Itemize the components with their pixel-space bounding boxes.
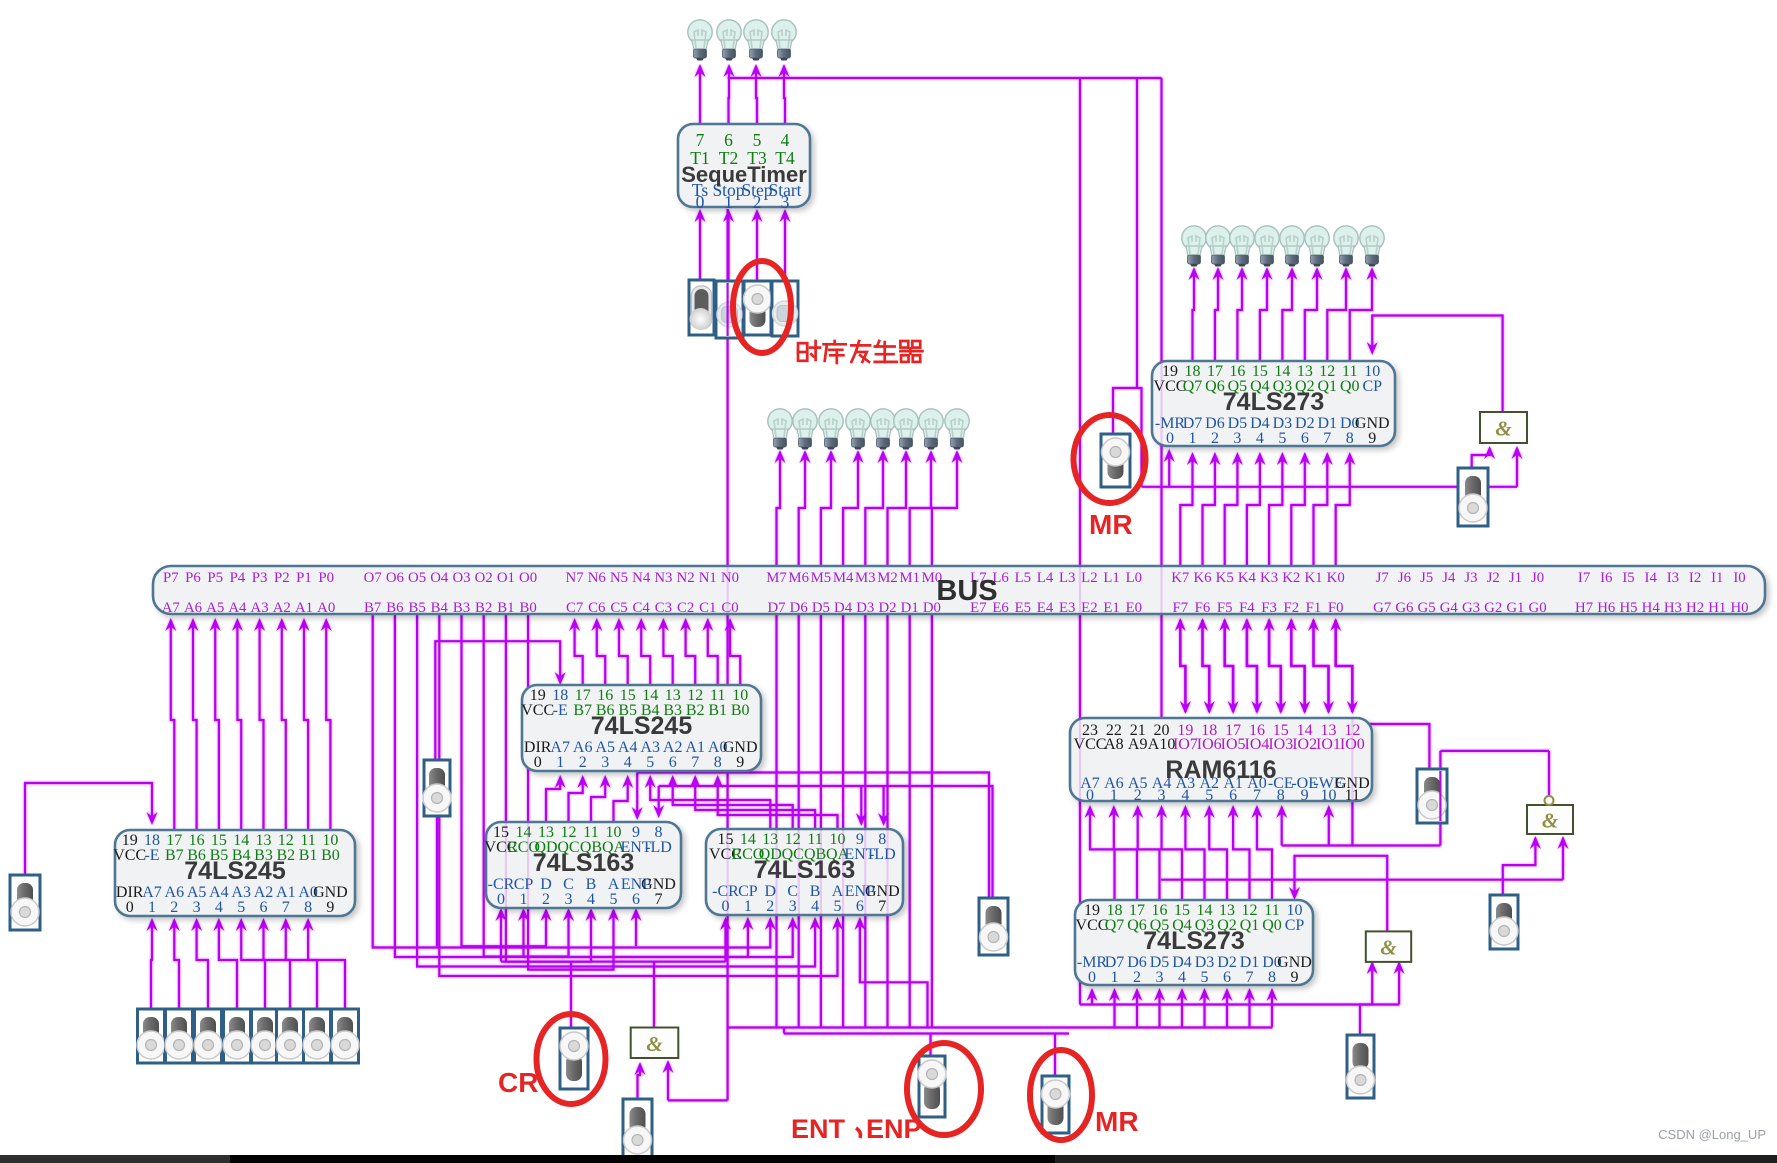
svg-text:SequeTimer: SequeTimer xyxy=(681,162,807,187)
svg-text:7: 7 xyxy=(1253,787,1261,804)
svg-text:0: 0 xyxy=(1166,430,1174,447)
svg-text:O6: O6 xyxy=(386,570,404,586)
svg-text:L2: L2 xyxy=(1081,570,1097,586)
svg-text:A4: A4 xyxy=(228,600,247,616)
svg-text:B7: B7 xyxy=(573,702,592,719)
svg-text:B1: B1 xyxy=(299,847,318,864)
svg-text:7: 7 xyxy=(691,754,699,771)
svg-text:4: 4 xyxy=(1181,787,1189,804)
svg-text:B0: B0 xyxy=(519,600,536,616)
svg-text:4: 4 xyxy=(1256,430,1264,447)
svg-text:3: 3 xyxy=(601,754,609,771)
svg-text:-LD: -LD xyxy=(869,846,896,863)
svg-text:I1: I1 xyxy=(1711,570,1723,586)
svg-text:L4: L4 xyxy=(1037,570,1054,586)
svg-text:D2: D2 xyxy=(878,600,896,616)
svg-text:I4: I4 xyxy=(1645,570,1658,586)
svg-text:2: 2 xyxy=(1134,787,1142,804)
svg-text:G6: G6 xyxy=(1395,600,1413,616)
svg-text:3: 3 xyxy=(789,898,797,915)
svg-text:N4: N4 xyxy=(632,570,651,586)
svg-text:74LS245: 74LS245 xyxy=(591,712,693,740)
svg-text:O7: O7 xyxy=(364,570,382,586)
svg-text:P6: P6 xyxy=(185,570,201,586)
svg-text:VCC: VCC xyxy=(1076,917,1109,934)
svg-text:N1: N1 xyxy=(699,570,717,586)
svg-text:IO1: IO1 xyxy=(1316,736,1341,753)
svg-text:P5: P5 xyxy=(207,570,223,586)
svg-text:0: 0 xyxy=(126,899,134,916)
svg-text:VCC: VCC xyxy=(521,702,554,719)
svg-text:F7: F7 xyxy=(1172,600,1188,616)
svg-text:6: 6 xyxy=(1223,969,1231,986)
svg-text:I3: I3 xyxy=(1667,570,1679,586)
svg-text:B0: B0 xyxy=(731,702,750,719)
svg-text:3: 3 xyxy=(565,891,573,908)
svg-text:VCC: VCC xyxy=(1074,736,1107,753)
svg-text:7: 7 xyxy=(878,898,886,915)
svg-text:F1: F1 xyxy=(1306,600,1322,616)
svg-text:A6: A6 xyxy=(184,600,202,616)
svg-text:J4: J4 xyxy=(1442,570,1456,586)
svg-text:C5: C5 xyxy=(610,600,627,616)
svg-text:5: 5 xyxy=(753,130,762,150)
svg-text:2: 2 xyxy=(170,899,178,916)
svg-text:O0: O0 xyxy=(519,570,537,586)
svg-text:&: & xyxy=(1542,809,1559,833)
svg-text:A10: A10 xyxy=(1148,736,1176,753)
svg-text:8: 8 xyxy=(304,899,312,916)
svg-text:K1: K1 xyxy=(1304,570,1322,586)
svg-text:-E: -E xyxy=(144,847,159,864)
svg-text:E2: E2 xyxy=(1081,600,1097,616)
svg-text:D6: D6 xyxy=(790,600,808,616)
svg-text:5: 5 xyxy=(237,899,245,916)
svg-text:C6: C6 xyxy=(588,600,605,616)
svg-text:6: 6 xyxy=(856,898,864,915)
svg-text:6: 6 xyxy=(724,130,733,150)
svg-text:&: & xyxy=(646,1032,663,1056)
svg-text:9: 9 xyxy=(1301,787,1309,804)
svg-text:8: 8 xyxy=(1346,430,1354,447)
svg-text:B6: B6 xyxy=(386,600,403,616)
svg-text:F6: F6 xyxy=(1195,600,1211,616)
svg-text:O3: O3 xyxy=(452,570,470,586)
svg-text:8: 8 xyxy=(714,754,722,771)
svg-text:CR: CR xyxy=(498,1067,538,1098)
svg-text:L5: L5 xyxy=(1015,570,1031,586)
svg-text:A8: A8 xyxy=(1104,736,1124,753)
svg-text:74LS245: 74LS245 xyxy=(184,857,286,885)
svg-text:74LS163: 74LS163 xyxy=(754,856,855,884)
svg-text:C2: C2 xyxy=(677,600,694,616)
svg-text:4: 4 xyxy=(781,130,790,150)
svg-text:CP: CP xyxy=(1285,917,1305,934)
svg-text:7: 7 xyxy=(655,891,663,908)
svg-text:0: 0 xyxy=(696,192,705,212)
svg-text:&: & xyxy=(1495,417,1512,441)
svg-text:1: 1 xyxy=(724,192,733,212)
svg-text:J6: J6 xyxy=(1398,570,1411,586)
svg-text:1: 1 xyxy=(744,898,752,915)
svg-text:74LS163: 74LS163 xyxy=(533,849,634,877)
svg-text:1: 1 xyxy=(556,754,564,771)
svg-text:L3: L3 xyxy=(1059,570,1075,586)
svg-text:O5: O5 xyxy=(408,570,426,586)
svg-text:K4: K4 xyxy=(1238,570,1257,586)
svg-text:G0: G0 xyxy=(1529,600,1547,616)
svg-text:M7: M7 xyxy=(766,570,787,586)
svg-text:H4: H4 xyxy=(1642,600,1661,616)
svg-text:L1: L1 xyxy=(1103,570,1119,586)
svg-text:CP: CP xyxy=(1362,378,1382,395)
svg-text:5: 5 xyxy=(610,891,618,908)
svg-text:G1: G1 xyxy=(1506,600,1524,616)
svg-text:K5: K5 xyxy=(1216,570,1234,586)
svg-text:E4: E4 xyxy=(1037,600,1054,616)
svg-text:G4: G4 xyxy=(1440,600,1459,616)
svg-text:N5: N5 xyxy=(610,570,628,586)
svg-text:C7: C7 xyxy=(566,600,583,616)
svg-text:K7: K7 xyxy=(1171,570,1189,586)
svg-text:A3: A3 xyxy=(251,600,269,616)
svg-text:N6: N6 xyxy=(588,570,606,586)
svg-text:A9: A9 xyxy=(1128,736,1148,753)
svg-text:7: 7 xyxy=(282,899,290,916)
svg-text:5: 5 xyxy=(1278,430,1286,447)
svg-text:CSDN @Long_UP: CSDN @Long_UP xyxy=(1658,1127,1766,1142)
svg-text:M6: M6 xyxy=(788,570,809,586)
svg-text:H2: H2 xyxy=(1686,600,1704,616)
svg-text:C1: C1 xyxy=(699,600,716,616)
svg-text:5: 5 xyxy=(646,754,654,771)
svg-text:J1: J1 xyxy=(1509,570,1522,586)
svg-text:C4: C4 xyxy=(633,600,651,616)
svg-text:B3: B3 xyxy=(453,600,470,616)
svg-text:2: 2 xyxy=(766,898,774,915)
svg-text:O1: O1 xyxy=(497,570,515,586)
svg-text:ENP: ENP xyxy=(866,1114,922,1144)
svg-text:2: 2 xyxy=(753,192,762,212)
svg-text:7: 7 xyxy=(1246,969,1254,986)
svg-text:3: 3 xyxy=(781,192,790,212)
svg-text:4: 4 xyxy=(624,754,632,771)
svg-text:B1: B1 xyxy=(497,600,514,616)
svg-text:74LS273: 74LS273 xyxy=(1143,927,1244,955)
svg-text:D5: D5 xyxy=(812,600,830,616)
svg-text:K3: K3 xyxy=(1260,570,1278,586)
svg-text:9: 9 xyxy=(1368,430,1376,447)
svg-text:I2: I2 xyxy=(1689,570,1701,586)
svg-text:P0: P0 xyxy=(318,570,334,586)
svg-text:4: 4 xyxy=(587,891,595,908)
svg-text:4: 4 xyxy=(215,899,223,916)
svg-text:M3: M3 xyxy=(855,570,876,586)
svg-text:I0: I0 xyxy=(1733,570,1745,586)
svg-text:3: 3 xyxy=(193,899,201,916)
svg-text:P4: P4 xyxy=(230,570,246,586)
svg-text:H0: H0 xyxy=(1730,600,1748,616)
svg-text:IO5: IO5 xyxy=(1221,736,1246,753)
svg-text:3: 3 xyxy=(1233,430,1241,447)
svg-text:F5: F5 xyxy=(1217,600,1233,616)
svg-text:N2: N2 xyxy=(677,570,695,586)
svg-text:2: 2 xyxy=(579,754,587,771)
svg-text:5: 5 xyxy=(1205,787,1213,804)
svg-text:5: 5 xyxy=(834,898,842,915)
svg-text:A7: A7 xyxy=(162,600,180,616)
svg-text:1: 1 xyxy=(1110,787,1118,804)
svg-text:I7: I7 xyxy=(1578,570,1590,586)
svg-text:A2: A2 xyxy=(273,600,291,616)
svg-text:C0: C0 xyxy=(721,600,738,616)
svg-text:IO3: IO3 xyxy=(1268,736,1293,753)
svg-text:K6: K6 xyxy=(1193,570,1211,586)
svg-text:N3: N3 xyxy=(654,570,672,586)
svg-text:B7: B7 xyxy=(165,847,184,864)
svg-text:0: 0 xyxy=(497,891,505,908)
svg-text:2: 2 xyxy=(1211,430,1219,447)
svg-text:P3: P3 xyxy=(252,570,268,586)
svg-text:&: & xyxy=(1380,936,1397,960)
svg-text:E5: E5 xyxy=(1015,600,1031,616)
svg-text:B1: B1 xyxy=(708,702,727,719)
svg-text:9: 9 xyxy=(736,754,744,771)
svg-text:E3: E3 xyxy=(1059,600,1075,616)
svg-text:O2: O2 xyxy=(475,570,493,586)
svg-text:J3: J3 xyxy=(1464,570,1477,586)
svg-text:J0: J0 xyxy=(1531,570,1544,586)
svg-text:D1: D1 xyxy=(901,600,919,616)
svg-text:IO4: IO4 xyxy=(1245,736,1270,753)
svg-text:IO2: IO2 xyxy=(1292,736,1317,753)
svg-text:E1: E1 xyxy=(1103,600,1119,616)
svg-text:7: 7 xyxy=(1323,430,1331,447)
svg-text:2: 2 xyxy=(542,891,550,908)
svg-text:G5: G5 xyxy=(1418,600,1436,616)
svg-text:1: 1 xyxy=(520,891,528,908)
svg-text:K0: K0 xyxy=(1327,570,1345,586)
svg-text:F2: F2 xyxy=(1283,600,1299,616)
svg-text:G3: G3 xyxy=(1462,600,1480,616)
svg-text:Q7: Q7 xyxy=(1105,917,1125,934)
svg-text:N7: N7 xyxy=(566,570,584,586)
svg-text:F4: F4 xyxy=(1239,600,1255,616)
svg-text:N0: N0 xyxy=(721,570,739,586)
svg-text:I5: I5 xyxy=(1622,570,1634,586)
svg-text:A5: A5 xyxy=(206,600,224,616)
svg-text:1: 1 xyxy=(1111,969,1119,986)
svg-text:0: 0 xyxy=(534,754,542,771)
svg-text:P7: P7 xyxy=(163,570,179,586)
svg-text:I6: I6 xyxy=(1600,570,1612,586)
svg-text:B2: B2 xyxy=(475,600,492,616)
svg-text:-LD: -LD xyxy=(645,839,672,856)
svg-text:F0: F0 xyxy=(1328,600,1344,616)
svg-text:Q0: Q0 xyxy=(1340,378,1360,395)
svg-text:-E: -E xyxy=(553,702,568,719)
svg-text:B5: B5 xyxy=(408,600,425,616)
svg-text:1: 1 xyxy=(148,899,156,916)
svg-text:6: 6 xyxy=(1301,430,1309,447)
svg-text:Q0: Q0 xyxy=(1262,917,1282,934)
svg-text:G7: G7 xyxy=(1373,600,1391,616)
svg-text:6: 6 xyxy=(1229,787,1237,804)
svg-text:L0: L0 xyxy=(1126,570,1142,586)
svg-text:M5: M5 xyxy=(811,570,832,586)
svg-text:6: 6 xyxy=(260,899,268,916)
svg-text:1: 1 xyxy=(1188,430,1196,447)
svg-text:7: 7 xyxy=(696,130,705,150)
svg-text:O4: O4 xyxy=(430,570,449,586)
svg-text:B7: B7 xyxy=(364,600,381,616)
svg-text:6: 6 xyxy=(669,754,677,771)
svg-text:D7: D7 xyxy=(767,600,785,616)
svg-text:J2: J2 xyxy=(1487,570,1500,586)
svg-text:5: 5 xyxy=(1201,969,1209,986)
svg-text:2: 2 xyxy=(1133,969,1141,986)
svg-text:M1: M1 xyxy=(899,570,920,586)
svg-text:MR: MR xyxy=(1095,1106,1139,1137)
svg-text:E0: E0 xyxy=(1126,600,1142,616)
svg-text:MR: MR xyxy=(1089,509,1133,540)
svg-text:4: 4 xyxy=(1178,969,1186,986)
svg-text:F3: F3 xyxy=(1261,600,1277,616)
svg-text:4: 4 xyxy=(811,898,819,915)
svg-text:IO6: IO6 xyxy=(1197,736,1222,753)
svg-text:3: 3 xyxy=(1158,787,1166,804)
svg-text:VCC: VCC xyxy=(113,847,146,864)
svg-text:A1: A1 xyxy=(295,600,313,616)
svg-text:ENT: ENT xyxy=(791,1114,846,1144)
svg-text:8: 8 xyxy=(1277,787,1285,804)
svg-text:0: 0 xyxy=(1086,787,1094,804)
svg-text:M4: M4 xyxy=(833,570,854,586)
svg-text:M2: M2 xyxy=(877,570,898,586)
svg-text:P2: P2 xyxy=(274,570,290,586)
svg-text:VCC: VCC xyxy=(1154,378,1187,395)
svg-text:D4: D4 xyxy=(834,600,853,616)
svg-text:G2: G2 xyxy=(1484,600,1502,616)
svg-text:K2: K2 xyxy=(1282,570,1300,586)
svg-text:3: 3 xyxy=(1156,969,1164,986)
svg-text:0: 0 xyxy=(1088,969,1096,986)
svg-text:H3: H3 xyxy=(1664,600,1682,616)
svg-text:H7: H7 xyxy=(1575,600,1593,616)
svg-text:74LS273: 74LS273 xyxy=(1223,388,1324,416)
svg-text:B4: B4 xyxy=(431,600,449,616)
svg-text:RAM6116: RAM6116 xyxy=(1165,756,1276,784)
svg-text:P1: P1 xyxy=(296,570,312,586)
svg-text:IO7: IO7 xyxy=(1173,736,1198,753)
svg-text:H1: H1 xyxy=(1708,600,1726,616)
svg-text:H6: H6 xyxy=(1597,600,1615,616)
svg-text:6: 6 xyxy=(632,891,640,908)
svg-text:BUS: BUS xyxy=(936,575,997,607)
svg-text:B0: B0 xyxy=(321,847,340,864)
svg-text:H5: H5 xyxy=(1619,600,1637,616)
svg-text:Q7: Q7 xyxy=(1183,378,1203,395)
svg-text:9: 9 xyxy=(326,899,334,916)
svg-text:J5: J5 xyxy=(1420,570,1433,586)
svg-text:9: 9 xyxy=(1291,969,1299,986)
svg-text:J7: J7 xyxy=(1376,570,1389,586)
svg-text:A0: A0 xyxy=(317,600,335,616)
svg-text:C3: C3 xyxy=(655,600,672,616)
svg-text:8: 8 xyxy=(1268,969,1276,986)
svg-text:D3: D3 xyxy=(856,600,874,616)
